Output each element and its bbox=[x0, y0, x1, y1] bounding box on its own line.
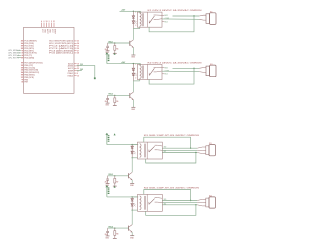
diode D2 flyback block 2 bbox=[132, 64, 135, 71]
ground emitter block 1 bbox=[131, 55, 136, 59]
svg-text:NO1: NO1 bbox=[165, 15, 168, 17]
relay K1 name/value text bbox=[148, 9, 203, 12]
pin 27 PC4 (ADC4/SDA) bbox=[49, 49, 79, 52]
svg-text:1: 1 bbox=[135, 12, 136, 14]
relay K3 coil bbox=[132, 144, 145, 158]
pin 10 XTAL2 bbox=[67, 74, 79, 77]
node junction coil bottom block 4 bbox=[132, 210, 133, 211]
ground capacitor block 2 bbox=[105, 103, 109, 106]
relay K1 body box bbox=[137, 12, 162, 27]
pin 7 PB6 bbox=[21, 79, 28, 81]
wire bottom return path block 3 bbox=[146, 153, 196, 164]
connector X4 label bbox=[209, 195, 212, 198]
svg-text:GND: GND bbox=[130, 237, 135, 239]
pin 2 PD4 (XCK/T0) bbox=[21, 52, 37, 55]
LED LED4 block 4 bbox=[131, 201, 136, 210]
wire collector column block 2 bbox=[132, 81, 134, 92]
wire bottom return path block 1 bbox=[149, 16, 194, 32]
wire base net REL1 bbox=[108, 41, 130, 43]
ground base pulldown block 3 bbox=[113, 185, 117, 187]
node junction LED column top block 1 bbox=[133, 11, 134, 12]
relay K1 switch pole bbox=[149, 15, 162, 23]
pin 12 PB0 (ICP) bbox=[21, 65, 34, 67]
resistor R3 base pulldown bbox=[114, 176, 119, 186]
diode D4 flyback block 4 bbox=[131, 197, 134, 201]
wire relay NO to X1-1 bbox=[173, 15, 200, 17]
pin 6 top stub bbox=[44, 21, 46, 33]
wire collector column block 1 bbox=[132, 29, 134, 40]
relay K3 body box bbox=[138, 142, 163, 159]
wire to coil block 4 bbox=[132, 196, 138, 198]
pin 32 PD2 (INT0) bbox=[21, 48, 35, 50]
svg-text:K4 G6E-134P-ST-US 24VDC OMRON: K4 G6E-134P-ST-US 24VDC OMRON bbox=[144, 187, 200, 190]
resistor R4 base pulldown bbox=[114, 228, 119, 238]
pin 3 top stub bbox=[49, 21, 51, 33]
svg-text:1: 1 bbox=[135, 64, 136, 66]
relay K2 body box bbox=[137, 64, 162, 79]
pin 18 top stub bbox=[46, 21, 50, 34]
svg-text:R7: R7 bbox=[116, 181, 118, 183]
wire to coil block 3 bbox=[132, 144, 138, 146]
wire bottom return path block 2 bbox=[149, 68, 194, 84]
node junction at 194 bbox=[193, 68, 194, 69]
svg-text:NO1: NO1 bbox=[165, 67, 168, 69]
pin 20 AVCC bbox=[68, 67, 79, 70]
ground capacitor block 3 bbox=[105, 184, 109, 187]
ground base pulldown block 1 bbox=[113, 52, 117, 54]
svg-text:2: 2 bbox=[135, 25, 136, 27]
wire to relay coil top block 1 bbox=[133, 11, 140, 13]
svg-text:GND: GND bbox=[49, 29, 51, 34]
wire +24V supply net block 1 bbox=[120, 9, 134, 12]
wire relay NO to X2-1 bbox=[173, 67, 200, 69]
LED LED3 block 3 bbox=[131, 149, 136, 158]
pin 14 PB2 (SS/OC1B) bbox=[21, 69, 39, 72]
pin 16 PB4 (MISO) bbox=[21, 74, 35, 77]
wire XTAL1 net bbox=[77, 64, 95, 78]
wire bottom return path block 4 bbox=[146, 205, 196, 216]
wire relay COM to X4-2 bbox=[162, 202, 197, 204]
node base junction block 1 bbox=[114, 42, 115, 43]
ground capacitor block 1 bbox=[105, 51, 109, 54]
wire relay NO to X4-1 bbox=[162, 200, 197, 202]
pin 21 top stub bbox=[53, 21, 57, 35]
node junction top path bbox=[190, 148, 191, 149]
connector X2 terminal block bbox=[199, 65, 216, 77]
ground emitter block 2 bbox=[131, 107, 136, 111]
wire collector column block 3 bbox=[131, 158, 133, 173]
relay K4 internal divider bbox=[146, 194, 148, 211]
svg-text:REL1: REL1 bbox=[109, 41, 114, 43]
svg-text:PB7: PB7 bbox=[24, 82, 28, 84]
transistor Q3 NPN bbox=[129, 172, 133, 183]
wire relay NC to X4-3 bbox=[162, 204, 197, 206]
svg-text:PD6 (AIN0): PD6 (AIN0) bbox=[24, 57, 34, 60]
svg-text:5: 5 bbox=[51, 21, 52, 23]
relay K2 name/value text bbox=[148, 61, 203, 64]
svg-text:K3 G6E-134P-ST-US 24VDC OMRON: K3 G6E-134P-ST-US 24VDC OMRON bbox=[144, 134, 200, 137]
svg-text:4: 4 bbox=[41, 20, 42, 23]
node base junction block 4 bbox=[114, 228, 115, 229]
connector X1 label bbox=[210, 12, 213, 14]
wire +24V supply net block 4 bbox=[107, 196, 132, 198]
pin 17 PB5 (SCK) bbox=[21, 77, 34, 79]
svg-text:10: 10 bbox=[77, 75, 79, 77]
diode D1 flyback block 1 bbox=[132, 11, 135, 18]
wire relay NC to X3-3 bbox=[162, 152, 197, 154]
supply +24V arrow block 3 bbox=[106, 133, 116, 144]
wire net APL_RST_S bbox=[8, 56, 21, 59]
svg-text:R8: R8 bbox=[116, 234, 118, 236]
pin 26 PC3 (ADC3) bbox=[49, 47, 79, 50]
relay K1 internal divider bbox=[147, 12, 149, 27]
ground emitter block 4 bbox=[130, 236, 135, 240]
wire relay COM to X3-2 bbox=[162, 149, 197, 151]
supply +24V arrow block 4 bbox=[106, 186, 116, 197]
pin 22 AGND bbox=[68, 65, 79, 68]
pin 23 MCU_MISO/PCINT4 (ADC0) bbox=[49, 40, 79, 43]
wire net APL_MOSI_S bbox=[8, 49, 21, 52]
relay K4 contact pin labels bbox=[164, 199, 167, 205]
connector X3 terminal block bbox=[197, 145, 215, 156]
pin 29 PC6 (/RESET) bbox=[21, 41, 37, 43]
resistor R2 base pulldown bbox=[114, 95, 119, 105]
relay K4 coil bbox=[132, 196, 145, 210]
svg-text:GND: GND bbox=[105, 105, 109, 107]
relay K1 contact pin stubs and labels bbox=[162, 15, 169, 23]
svg-text:REL3: REL3 bbox=[109, 174, 114, 176]
node junction bottom path bbox=[195, 152, 196, 153]
ground emitter block 3 bbox=[130, 183, 135, 187]
svg-text:GND: GND bbox=[105, 237, 109, 239]
svg-text:K1 G5V-2 24VDC 2A 250VAC OMRON: K1 G5V-2 24VDC 2A 250VAC OMRON bbox=[148, 9, 203, 12]
pin 28 PC5 (ADC5/SCL) bbox=[49, 52, 79, 55]
node XTAL1 endpoint bbox=[94, 77, 96, 79]
wire collector column block 4 bbox=[131, 210, 133, 225]
svg-text:VCC: VCC bbox=[41, 29, 43, 33]
wire base net REL3 bbox=[108, 174, 129, 176]
svg-text:28: 28 bbox=[77, 53, 79, 55]
relay K2 internal divider bbox=[147, 64, 149, 79]
wire XTAL2 net bbox=[77, 69, 84, 71]
svg-text:6: 6 bbox=[44, 21, 45, 23]
LED LED2 block 2 bbox=[132, 71, 137, 81]
wire net APL_MISO_S bbox=[8, 52, 21, 55]
relay K2 contact pin stubs and labels bbox=[162, 67, 169, 75]
diode D3 flyback block 3 bbox=[131, 145, 134, 149]
svg-text:Q2: Q2 bbox=[80, 69, 84, 71]
capacitor C4 base filter bbox=[105, 228, 109, 236]
relay K2 switch pole bbox=[149, 67, 162, 75]
pin 11 PD7 (AIN1/PCINT23) bbox=[21, 62, 43, 65]
pin 24 MCU_SCK/PCINT5 (ADC1) bbox=[49, 42, 79, 45]
svg-text:GND: GND bbox=[131, 109, 136, 111]
svg-text:R6: R6 bbox=[116, 101, 118, 103]
node junction LED column top block 3 bbox=[132, 144, 133, 145]
pin 4 top stub bbox=[41, 20, 43, 33]
capacitor C2 base filter bbox=[105, 95, 109, 103]
relay K3 internal divider bbox=[146, 142, 148, 159]
wire base net REL4 bbox=[108, 226, 129, 229]
svg-text:8: 8 bbox=[22, 82, 23, 84]
pin 31 PD1 (TXD) bbox=[21, 46, 34, 48]
pin 10 PD6 (AIN0) bbox=[21, 57, 35, 60]
relay K3 switch pole bbox=[149, 145, 162, 152]
svg-text:GND: GND bbox=[131, 57, 136, 59]
pin 19 ADC6 bbox=[68, 62, 79, 65]
svg-text:10: 10 bbox=[21, 58, 23, 60]
svg-text:18: 18 bbox=[46, 21, 48, 23]
LED LED1 block 1 bbox=[132, 18, 137, 28]
relay K4 body box bbox=[138, 194, 163, 211]
relay K4 switch pole bbox=[149, 198, 162, 205]
svg-text:GND: GND bbox=[130, 185, 135, 187]
svg-text:AREF: AREF bbox=[54, 29, 57, 35]
svg-text:21: 21 bbox=[53, 21, 55, 23]
connector X2 label bbox=[210, 64, 213, 66]
connector X3 label bbox=[209, 143, 212, 145]
capacitor C3 base filter bbox=[105, 176, 109, 184]
wire to relay coil top block 2 bbox=[133, 64, 140, 66]
svg-text:3: 3 bbox=[49, 21, 50, 23]
wire relay COM to X2-2 bbox=[162, 70, 199, 72]
capacitor C1 base filter bbox=[105, 43, 109, 51]
pin 13 PB1 (OC1A) bbox=[21, 66, 36, 69]
wire relay top to X4 pin2 bbox=[144, 190, 191, 201]
wire relay COM to X1-2 bbox=[162, 18, 199, 20]
svg-text:PC5 (ADC5/SCL): PC5 (ADC5/SCL) bbox=[49, 52, 74, 55]
connector X1 terminal block bbox=[199, 13, 216, 25]
pin 25 PC2 (ADC2) bbox=[49, 45, 79, 48]
pin 8 PB7 bbox=[21, 82, 28, 84]
wire relay top to X3 pin2 bbox=[144, 137, 191, 148]
transistor Q1 NPN bbox=[130, 40, 134, 55]
pin 5 top stub bbox=[51, 21, 53, 33]
node junction LED column top block 4 bbox=[132, 196, 133, 197]
svg-text:NC1: NC1 bbox=[165, 74, 168, 76]
relay K3 name/value text bbox=[144, 134, 200, 137]
wire base net REL2 bbox=[108, 94, 130, 96]
svg-text:K2 G5V-2 24VDC 2A 250VAC OMRON: K2 G5V-2 24VDC 2A 250VAC OMRON bbox=[148, 61, 203, 64]
svg-text:R5: R5 bbox=[116, 49, 118, 51]
pin 9 XTAL1 bbox=[67, 72, 78, 75]
node junction coil bottom block 3 bbox=[132, 157, 133, 158]
wire +24V supply net block 2 bbox=[120, 61, 134, 64]
pin 15 PB3 (MOSI/OC2) bbox=[21, 72, 40, 74]
wire +24V supply net block 3 bbox=[107, 144, 132, 146]
svg-text:REL2: REL2 bbox=[109, 94, 114, 96]
node junction at 194 bbox=[193, 15, 194, 16]
relay K2 coil bbox=[133, 64, 143, 81]
relay K4 name/value text bbox=[144, 187, 200, 190]
node junction top path bbox=[190, 200, 191, 201]
resistor R1 base pulldown bbox=[114, 43, 119, 53]
IC U1 ATMEGA8 microcontroller body bbox=[24, 27, 75, 93]
relay K3 contact pin labels bbox=[164, 147, 167, 153]
transistor Q4 NPN bbox=[129, 225, 133, 236]
node junction bottom path bbox=[195, 204, 196, 205]
ground base pulldown block 2 bbox=[113, 105, 117, 107]
node junction LED column top block 2 bbox=[133, 63, 134, 64]
svg-text:2: 2 bbox=[135, 77, 136, 79]
ground capacitor block 4 bbox=[105, 236, 109, 239]
connector X4 terminal block bbox=[197, 197, 215, 208]
pin 9 PD5 (T1) bbox=[21, 55, 32, 57]
pin 1 PD3 (INT1) bbox=[21, 50, 34, 52]
ground base pulldown block 4 bbox=[113, 237, 117, 239]
relay K1 coil bbox=[133, 11, 143, 28]
svg-text:APL_RST_S: APL_RST_S bbox=[8, 56, 19, 59]
wire net APL_SCK_S bbox=[8, 54, 21, 57]
node base junction block 2 bbox=[114, 95, 115, 96]
pin 30 PD0 (RXD) bbox=[21, 43, 34, 45]
svg-text:NC1: NC1 bbox=[165, 21, 168, 23]
wire relay NO to X3-1 bbox=[162, 147, 197, 149]
svg-text:XTAL2: XTAL2 bbox=[67, 74, 73, 77]
node base junction block 3 bbox=[114, 175, 115, 176]
transistor Q2 NPN bbox=[130, 92, 134, 107]
pin 21 AREF bbox=[68, 70, 79, 73]
svg-text:GND: GND bbox=[44, 29, 46, 34]
supply +24V arrow block 2 bbox=[106, 53, 120, 64]
svg-text:REL4: REL4 bbox=[109, 226, 114, 229]
